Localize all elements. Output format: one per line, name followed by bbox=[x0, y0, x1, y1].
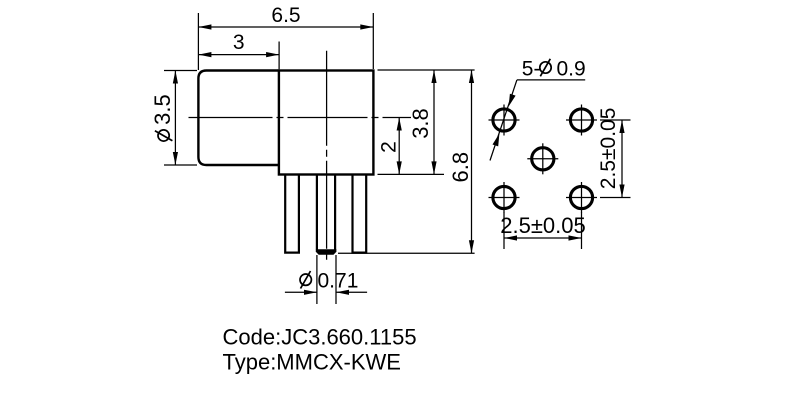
dim phi0.71 extension lines bbox=[316, 255, 318, 304]
dim 3 line bbox=[198, 54, 279, 56]
footprint hole top-right bbox=[566, 105, 597, 136]
footprint hole center bbox=[527, 143, 558, 174]
svg-text:0.71: 0.71 bbox=[318, 270, 359, 293]
dim phi3.5 extension lines bbox=[164, 70, 197, 72]
svg-text:3: 3 bbox=[233, 31, 245, 54]
svg-text:Type:MMCX-KWE: Type:MMCX-KWE bbox=[223, 350, 401, 375]
svg-text:5-: 5- bbox=[522, 58, 541, 81]
mounting leg left bbox=[285, 175, 299, 253]
center pin solder tip (filled) bbox=[316, 249, 337, 255]
footprint hole top-left bbox=[489, 105, 520, 136]
svg-text:2: 2 bbox=[378, 141, 401, 153]
right side extension line leg bottom bbox=[338, 252, 475, 254]
footprint dim 2.5 horizontal line bbox=[504, 237, 582, 239]
leader 5-phi0.9 line through top-left hole bbox=[490, 80, 517, 161]
svg-text:6.5: 6.5 bbox=[271, 4, 300, 27]
svg-text:2.5±0.05: 2.5±0.05 bbox=[597, 108, 620, 190]
svg-text:2.5±0.05: 2.5±0.05 bbox=[500, 213, 585, 238]
dim 2 line bbox=[398, 118, 400, 175]
svg-text:6.8: 6.8 bbox=[448, 152, 473, 183]
right side extension line top bbox=[378, 69, 475, 71]
svg-text:3.8: 3.8 bbox=[408, 108, 433, 139]
connector body square flange (side view) bbox=[279, 71, 374, 175]
dim 6.8 line bbox=[471, 70, 473, 253]
dim phi3.5 line bbox=[174, 71, 176, 166]
dim 6.5 extension line left bbox=[197, 13, 199, 70]
svg-text:3.5: 3.5 bbox=[150, 94, 175, 125]
footprint hole bottom-right bbox=[566, 182, 597, 213]
center contact pin bbox=[317, 175, 335, 250]
dim 3 extension line right bbox=[278, 42, 280, 70]
dim 3.8 line bbox=[433, 70, 435, 174]
footprint dim 2.5 vertical line bbox=[621, 120, 623, 198]
right side extension line flange bottom bbox=[378, 173, 445, 175]
centerline horizontal (barrel axis) bbox=[189, 117, 412, 119]
dim 6.5 extension line right bbox=[372, 13, 374, 69]
dim phi0.71 lines with outside arrows bbox=[285, 291, 317, 293]
footprint hole bottom-left bbox=[489, 182, 520, 213]
centerline vertical (pin axis) bbox=[326, 51, 328, 264]
svg-text:0.9: 0.9 bbox=[557, 58, 586, 81]
connector body barrel (side view, horizontal cylinder) bbox=[198, 71, 280, 166]
mounting leg right bbox=[353, 175, 367, 253]
footprint dim 2.5 vertical extension lines bbox=[600, 119, 631, 121]
dim 6.5 line bbox=[198, 26, 373, 28]
svg-text:Code:JC3.660.1155: Code:JC3.660.1155 bbox=[223, 325, 417, 350]
footprint dim 2.5 horizontal extension lines bbox=[503, 213, 505, 250]
leader 5-phi0.9 underline bbox=[517, 79, 585, 81]
